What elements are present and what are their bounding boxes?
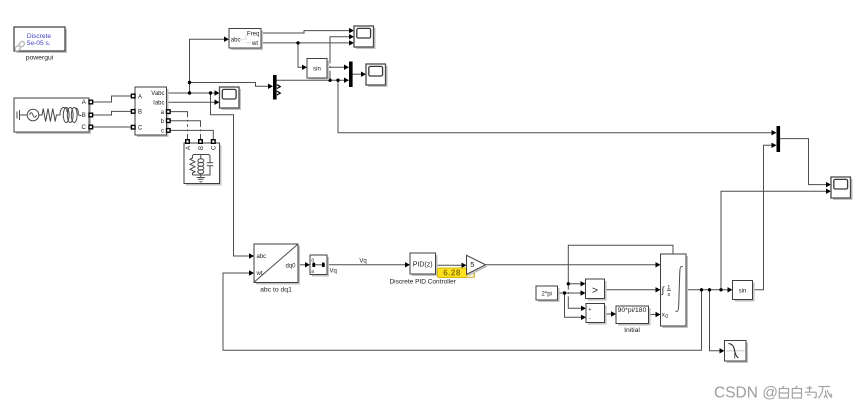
svg-text:abc: abc bbox=[231, 37, 241, 43]
svg-text:s: s bbox=[668, 292, 671, 298]
svg-text:wt: wt bbox=[256, 271, 263, 277]
svg-text:A: A bbox=[186, 146, 192, 150]
svg-text:CSDN @: CSDN @ bbox=[714, 385, 778, 402]
svg-text:Freq: Freq bbox=[247, 31, 259, 37]
svg-text:Vq: Vq bbox=[330, 268, 337, 274]
svg-text:2*pi: 2*pi bbox=[542, 291, 552, 297]
svg-text:B: B bbox=[199, 146, 205, 150]
svg-text:6.28: 6.28 bbox=[443, 268, 461, 277]
svg-text:Vq: Vq bbox=[359, 258, 366, 264]
svg-text:wt: wt bbox=[251, 41, 258, 47]
svg-text:Vabc: Vabc bbox=[151, 91, 164, 97]
svg-text:C: C bbox=[212, 145, 218, 150]
svg-text:dq0: dq0 bbox=[285, 263, 296, 269]
svg-text:a: a bbox=[311, 269, 314, 275]
svg-text:abc: abc bbox=[257, 254, 267, 260]
svg-text:-: - bbox=[589, 316, 591, 322]
svg-text:B: B bbox=[138, 110, 142, 116]
svg-text:5e-05 s.: 5e-05 s. bbox=[27, 40, 51, 47]
svg-text:A: A bbox=[138, 94, 142, 100]
svg-text:5: 5 bbox=[470, 260, 474, 269]
svg-text:B: B bbox=[82, 113, 86, 119]
svg-text:abc to dq1: abc to dq1 bbox=[260, 287, 292, 294]
svg-text:Initial: Initial bbox=[624, 327, 640, 334]
svg-text:C: C bbox=[81, 125, 86, 131]
svg-text:Discrete: Discrete bbox=[27, 33, 52, 40]
svg-text:>: > bbox=[592, 284, 598, 296]
svg-text:sin: sin bbox=[313, 66, 321, 72]
svg-text:C: C bbox=[138, 126, 143, 132]
svg-text:90*pi/180: 90*pi/180 bbox=[618, 307, 647, 314]
svg-text:sin: sin bbox=[739, 288, 747, 294]
svg-text:c: c bbox=[161, 129, 164, 135]
svg-text:0: 0 bbox=[665, 314, 668, 320]
svg-text:A: A bbox=[82, 100, 86, 106]
svg-text:powergui: powergui bbox=[26, 55, 54, 62]
svg-text:Iabc: Iabc bbox=[153, 100, 164, 106]
svg-text:Discrete PID Controller: Discrete PID Controller bbox=[389, 278, 456, 285]
svg-text:+: + bbox=[588, 307, 591, 313]
svg-text:PID(z): PID(z) bbox=[413, 261, 433, 268]
